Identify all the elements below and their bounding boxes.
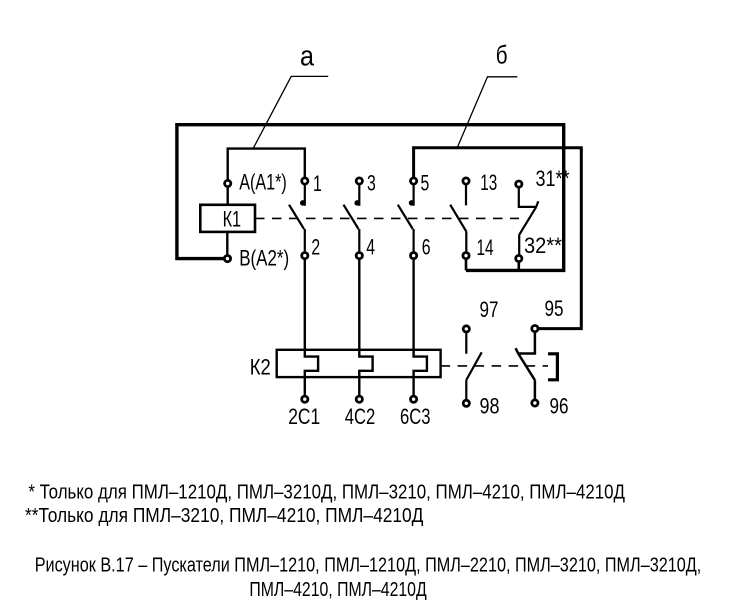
svg-text:3: 3 bbox=[367, 171, 376, 196]
svg-text:2: 2 bbox=[311, 235, 320, 260]
svg-text:97: 97 bbox=[480, 297, 499, 322]
svg-text:95: 95 bbox=[545, 296, 564, 321]
svg-text:4С2: 4С2 bbox=[345, 404, 376, 429]
svg-text:6: 6 bbox=[422, 235, 431, 260]
svg-text:31**: 31** bbox=[536, 166, 570, 191]
svg-text:К2: К2 bbox=[250, 355, 271, 380]
svg-text:б: б bbox=[496, 40, 508, 70]
svg-text:6С3: 6С3 bbox=[400, 404, 431, 429]
svg-text:1: 1 bbox=[313, 171, 322, 196]
svg-text:А(А1*): А(А1*) bbox=[239, 170, 287, 195]
svg-text:96: 96 bbox=[550, 394, 569, 419]
svg-text:* Только для ПМЛ–1210Д, ПМЛ–32: * Только для ПМЛ–1210Д, ПМЛ–3210Д, ПМЛ–3… bbox=[28, 482, 625, 504]
svg-text:14: 14 bbox=[477, 235, 494, 260]
svg-text:32**: 32** bbox=[524, 233, 562, 258]
svg-text:Рисунок В.17 – Пускатели ПМЛ–1: Рисунок В.17 – Пускатели ПМЛ–1210, ПМЛ–1… bbox=[35, 555, 702, 577]
svg-text:К1: К1 bbox=[223, 206, 242, 231]
svg-text:ПМЛ–4210, ПМЛ–4210Д: ПМЛ–4210, ПМЛ–4210Д bbox=[249, 579, 427, 601]
svg-text:а: а bbox=[300, 41, 315, 73]
svg-text:98: 98 bbox=[480, 394, 500, 419]
svg-text:13: 13 bbox=[480, 170, 497, 195]
svg-text:2С1: 2С1 bbox=[288, 404, 320, 429]
svg-text:5: 5 bbox=[421, 171, 430, 196]
svg-text:**Только для ПМЛ–3210, ПМЛ–421: **Только для ПМЛ–3210, ПМЛ–4210, ПМЛ–421… bbox=[25, 505, 424, 527]
svg-text:В(А2*): В(А2*) bbox=[239, 246, 289, 271]
svg-text:4: 4 bbox=[366, 235, 375, 260]
